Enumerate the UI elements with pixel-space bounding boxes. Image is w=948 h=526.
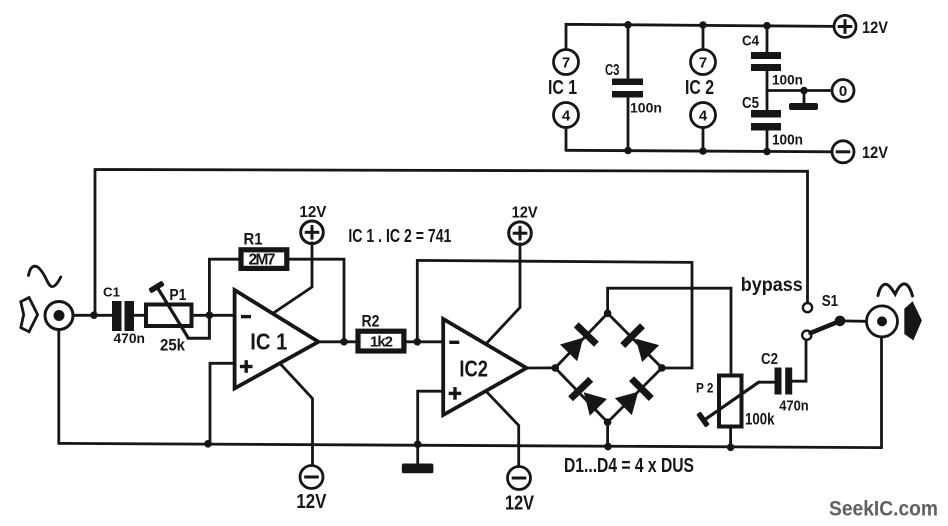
svg-text:100k: 100k	[745, 410, 775, 428]
svg-text:4: 4	[562, 108, 571, 125]
svg-text:IC 1: IC 1	[250, 329, 287, 355]
svg-text:470n: 470n	[114, 331, 146, 346]
svg-text:bypass: bypass	[741, 275, 803, 296]
svg-text:12V: 12V	[299, 204, 327, 221]
svg-text:C4: C4	[742, 33, 760, 50]
svg-text:P 2: P 2	[696, 379, 714, 395]
svg-text:4: 4	[699, 108, 708, 125]
svg-text:S1: S1	[822, 293, 839, 310]
svg-text:D1...D4 = 4 x DUS: D1...D4 = 4 x DUS	[564, 454, 694, 477]
svg-text:IC 1 . IC 2 = 741: IC 1 . IC 2 = 741	[348, 226, 451, 246]
svg-text:2M7: 2M7	[249, 252, 276, 269]
svg-text:470n: 470n	[779, 398, 809, 415]
svg-text:IC 1: IC 1	[548, 77, 577, 99]
svg-text:12V: 12V	[505, 493, 535, 515]
svg-text:C2: C2	[761, 351, 778, 368]
svg-text:12V: 12V	[512, 205, 538, 222]
svg-text:0: 0	[839, 83, 847, 100]
svg-text:7: 7	[562, 55, 570, 72]
svg-text:C5: C5	[742, 95, 759, 112]
svg-text:12V: 12V	[296, 491, 327, 513]
svg-text:12V: 12V	[862, 144, 888, 162]
svg-text:25k: 25k	[160, 336, 185, 355]
svg-text:100n: 100n	[630, 101, 662, 116]
svg-text:IC 2: IC 2	[685, 77, 714, 99]
svg-text:IC2: IC2	[459, 356, 488, 382]
svg-text:R1: R1	[244, 231, 263, 249]
svg-text:100n: 100n	[772, 132, 803, 149]
svg-text:C3: C3	[605, 62, 620, 79]
svg-text:P1: P1	[169, 287, 186, 304]
svg-text:7: 7	[699, 55, 707, 72]
svg-text:1k2: 1k2	[370, 334, 393, 351]
svg-text:R2: R2	[362, 312, 380, 330]
svg-text:C1: C1	[103, 285, 120, 300]
svg-text:12V: 12V	[862, 19, 888, 37]
svg-text:SeekIC.com: SeekIC.com	[829, 497, 938, 521]
svg-text:100n: 100n	[772, 72, 803, 88]
